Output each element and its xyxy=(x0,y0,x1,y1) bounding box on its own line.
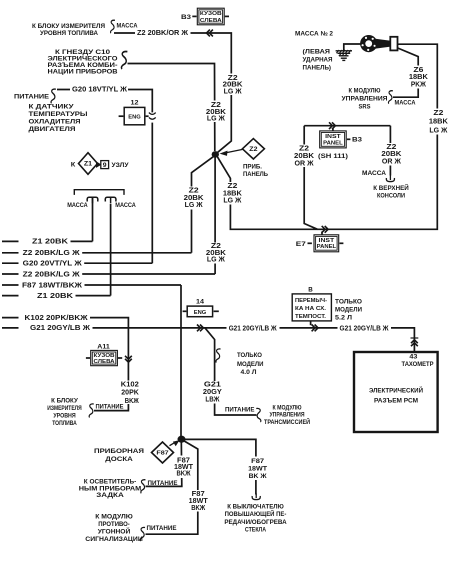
svg-text:PANEL: PANEL xyxy=(317,244,337,250)
svg-text:A11: A11 xyxy=(97,344,110,350)
svg-text:УЗЛУ: УЗЛУ xyxy=(112,162,129,169)
svg-text:СИГНАЛИЗАЦИИ: СИГНАЛИЗАЦИИ xyxy=(85,536,143,543)
svg-text:К МОДУЛЮ: К МОДУЛЮ xyxy=(273,404,302,411)
svg-text:20PK: 20PK xyxy=(121,390,139,397)
svg-text:G21: G21 xyxy=(204,382,221,389)
svg-text:УДАРНАЯ: УДАРНАЯ xyxy=(303,56,333,63)
svg-text:МАССА: МАССА xyxy=(362,170,386,177)
svg-text:УРОВНЯ: УРОВНЯ xyxy=(53,412,76,419)
svg-text:ENG: ENG xyxy=(128,114,141,120)
svg-text:ТАХОМЕТР: ТАХОМЕТР xyxy=(402,361,434,368)
svg-text:F87: F87 xyxy=(251,458,265,465)
svg-text:ТЕМПЕРАТУРЫ: ТЕМПЕРАТУРЫ xyxy=(29,111,88,118)
svg-text:Z2 20BK/LG Ж: Z2 20BK/LG Ж xyxy=(23,271,81,278)
svg-text:BK Ж: BK Ж xyxy=(249,473,267,480)
svg-text:ENG: ENG xyxy=(194,310,207,316)
svg-text:ПИТАНИЕ: ПИТАНИЕ xyxy=(225,406,255,413)
svg-text:(ЛЕВАЯ: (ЛЕВАЯ xyxy=(303,48,331,55)
svg-text:4.0 Л: 4.0 Л xyxy=(241,369,258,376)
svg-text:ПРОТИВО-: ПРОТИВО- xyxy=(98,521,130,528)
svg-text:К ВЕРХНЕЙ: К ВЕРХНЕЙ xyxy=(373,183,409,192)
svg-text:МАССА: МАССА xyxy=(395,100,416,107)
svg-text:СЛЕВА: СЛЕВА xyxy=(94,359,115,365)
svg-text:18BK: 18BK xyxy=(409,74,428,81)
svg-text:OR Ж: OR Ж xyxy=(382,159,402,166)
svg-text:К БЛОКУ ИЗМЕРИТЕЛЯ: К БЛОКУ ИЗМЕРИТЕЛЯ xyxy=(32,24,105,30)
svg-text:МОДЕЛИ: МОДЕЛИ xyxy=(237,361,264,368)
svg-text:18BK: 18BK xyxy=(429,119,448,126)
svg-text:G20 20VT/YL Ж: G20 20VT/YL Ж xyxy=(23,261,83,268)
svg-text:BKЖ: BKЖ xyxy=(177,471,192,478)
svg-text:ОХЛАДИТЕЛЯ: ОХЛАДИТЕЛЯ xyxy=(29,118,81,125)
svg-text:BKЖ: BKЖ xyxy=(191,505,206,512)
svg-text:14: 14 xyxy=(196,298,205,305)
svg-text:PANEL: PANEL xyxy=(323,140,343,146)
svg-text:КУЗОВ: КУЗОВ xyxy=(94,353,115,359)
svg-text:18WT: 18WT xyxy=(248,466,267,473)
svg-text:20BK: 20BK xyxy=(294,153,314,160)
svg-text:Z1: Z1 xyxy=(84,162,93,168)
svg-text:КОНСОЛИ: КОНСОЛИ xyxy=(377,193,405,200)
svg-text:20BK: 20BK xyxy=(184,195,204,202)
svg-text:ПАНЕЛЬ: ПАНЕЛЬ xyxy=(243,171,268,178)
svg-text:СТЕКЛА: СТЕКЛА xyxy=(245,527,267,534)
svg-text:PKЖ: PKЖ xyxy=(411,82,427,89)
svg-text:МАССА № 2: МАССА № 2 xyxy=(295,31,333,38)
svg-text:Z2: Z2 xyxy=(299,146,309,153)
svg-text:LBЖ: LBЖ xyxy=(205,397,220,404)
svg-text:МАССА: МАССА xyxy=(67,202,88,209)
svg-text:ДВИГАТЕЛЯ: ДВИГАТЕЛЯ xyxy=(29,126,76,133)
svg-text:ДОСКА: ДОСКА xyxy=(105,456,133,463)
svg-text:Z2 20BK/LG Ж: Z2 20BK/LG Ж xyxy=(23,250,81,257)
svg-text:12: 12 xyxy=(131,100,140,107)
svg-text:SRS: SRS xyxy=(359,104,372,111)
svg-text:LG Ж: LG Ж xyxy=(207,256,226,263)
svg-text:Z2: Z2 xyxy=(227,183,237,190)
svg-text:УРОВНЯ ТОПЛИВА: УРОВНЯ ТОПЛИВА xyxy=(40,31,99,37)
svg-text:Z1 20BK: Z1 20BK xyxy=(32,239,68,246)
svg-text:ТОПЛИВА: ТОПЛИВА xyxy=(52,420,77,427)
svg-text:Z2 20BK/OR Ж: Z2 20BK/OR Ж xyxy=(137,30,189,37)
svg-text:18WT: 18WT xyxy=(189,498,209,505)
svg-text:РЕДАЧИ/ОБОГРЕВА: РЕДАЧИ/ОБОГРЕВА xyxy=(224,519,287,526)
svg-text:OR Ж: OR Ж xyxy=(295,161,315,168)
svg-text:E7: E7 xyxy=(296,241,307,248)
svg-text:G21 20GY/LB Ж: G21 20GY/LB Ж xyxy=(340,326,390,333)
svg-text:20GY: 20GY xyxy=(203,389,222,396)
svg-text:LG Ж: LG Ж xyxy=(223,198,242,205)
svg-text:К: К xyxy=(71,162,76,169)
svg-text:43: 43 xyxy=(409,353,418,360)
svg-text:Z6: Z6 xyxy=(413,67,423,74)
svg-text:20BK: 20BK xyxy=(381,151,401,158)
svg-text:LG Ж: LG Ж xyxy=(185,202,204,209)
svg-text:Z2: Z2 xyxy=(386,144,396,151)
svg-text:K102: K102 xyxy=(121,381,139,388)
svg-text:КА НА СХ.: КА НА СХ. xyxy=(295,306,326,312)
svg-text:ПАНЕЛЬ): ПАНЕЛЬ) xyxy=(303,64,332,71)
svg-text:ПИТАНИЕ: ПИТАНИЕ xyxy=(14,94,50,101)
svg-text:F87 18WT/BKЖ: F87 18WT/BKЖ xyxy=(22,282,83,289)
svg-text:Z2: Z2 xyxy=(249,147,258,153)
svg-text:F87: F87 xyxy=(192,491,205,498)
svg-text:К ДАТЧИКУ: К ДАТЧИКУ xyxy=(29,104,75,111)
svg-text:ТОЛЬКО: ТОЛЬКО xyxy=(335,299,362,306)
svg-text:В: В xyxy=(308,286,313,293)
svg-text:G21 20GY/LB Ж: G21 20GY/LB Ж xyxy=(30,325,91,332)
svg-text:ТОЛЬКО: ТОЛЬКО xyxy=(237,352,262,359)
svg-text:ПОВЫШАЮЩЕЙ ПЕ-: ПОВЫШАЮЩЕЙ ПЕ- xyxy=(225,509,287,518)
svg-text:INST: INST xyxy=(319,238,335,244)
svg-text:МАССА: МАССА xyxy=(0,0,11,2)
svg-text:ЗАДКА: ЗАДКА xyxy=(96,492,124,499)
svg-text:УГОННОЙ: УГОННОЙ xyxy=(98,526,131,535)
svg-text:К МОДУЛЮ: К МОДУЛЮ xyxy=(95,513,133,520)
svg-text:СЛЕВА: СЛЕВА xyxy=(200,18,222,24)
svg-text:К ВЫКЛЮЧАТЕЛЮ: К ВЫКЛЮЧАТЕЛЮ xyxy=(227,503,284,510)
svg-text:РАЗЪЕМ РСМ: РАЗЪЕМ РСМ xyxy=(374,398,418,405)
svg-text:G20 18VT/YL Ж: G20 18VT/YL Ж xyxy=(72,87,128,94)
svg-text:ИЗМЕРИТЕЛЯ: ИЗМЕРИТЕЛЯ xyxy=(47,405,82,412)
svg-text:УПРАВЛЕНИЯ: УПРАВЛЕНИЯ xyxy=(270,412,305,419)
svg-text:BKЖ: BKЖ xyxy=(125,398,140,405)
svg-text:B3: B3 xyxy=(181,14,192,21)
svg-text:МОДЕЛИ: МОДЕЛИ xyxy=(335,307,362,314)
svg-text:K102 20PK/BKЖ: K102 20PK/BKЖ xyxy=(25,315,89,322)
svg-text:B3: B3 xyxy=(352,137,363,144)
svg-text:ЭЛЕКТРИЧЕСКИЙ: ЭЛЕКТРИЧЕСКИЙ xyxy=(369,387,424,395)
svg-text:ПИТАНИЕ: ПИТАНИЕ xyxy=(147,525,178,532)
svg-text:Z1 20BK: Z1 20BK xyxy=(37,293,73,300)
svg-text:К БЛОКУ: К БЛОКУ xyxy=(51,398,79,405)
svg-text:КУЗОВ: КУЗОВ xyxy=(200,11,222,17)
svg-text:5.2 Л: 5.2 Л xyxy=(335,315,353,322)
svg-text:МАССА: МАССА xyxy=(115,202,136,209)
svg-text:Z2: Z2 xyxy=(189,188,199,195)
svg-text:К МОДУЛЮ: К МОДУЛЮ xyxy=(349,87,381,94)
svg-text:ПИТАНИЕ: ПИТАНИЕ xyxy=(148,480,179,487)
svg-text:ТЕМПОСТ.: ТЕМПОСТ. xyxy=(295,314,326,320)
svg-text:18BK: 18BK xyxy=(223,190,242,197)
svg-text:LG Ж: LG Ж xyxy=(207,116,226,123)
svg-text:F87: F87 xyxy=(156,451,168,457)
svg-text:G21 20GY/LB Ж: G21 20GY/LB Ж xyxy=(229,325,278,332)
svg-text:Z2: Z2 xyxy=(433,110,443,117)
svg-text:МАССА: МАССА xyxy=(117,23,138,30)
svg-text:НАЦИИ ПРИБОРОВ: НАЦИИ ПРИБОРОВ xyxy=(48,68,118,75)
svg-text:LG Ж: LG Ж xyxy=(429,127,448,134)
svg-text:ПРИБОРНАЯ: ПРИБОРНАЯ xyxy=(94,448,144,455)
svg-text:LG Ж: LG Ж xyxy=(224,89,243,96)
svg-text:INST: INST xyxy=(325,134,341,140)
svg-text:ПРИБ.: ПРИБ. xyxy=(243,163,262,170)
svg-text:ПИТАНИЕ: ПИТАНИЕ xyxy=(96,403,125,410)
svg-text:УПРАВЛЕНИЯ: УПРАВЛЕНИЯ xyxy=(342,95,388,102)
svg-text:ТРАНСМИССИЕЙ: ТРАНСМИССИЕЙ xyxy=(264,417,310,426)
svg-text:ПЕРЕМЫЧ-: ПЕРЕМЫЧ- xyxy=(295,298,327,304)
svg-text:(SH 111): (SH 111) xyxy=(318,153,348,160)
